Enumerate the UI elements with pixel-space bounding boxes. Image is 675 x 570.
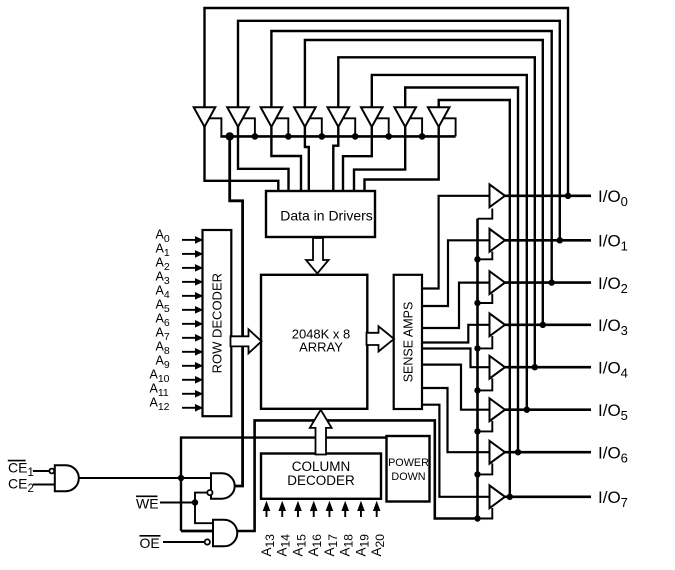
svg-text:ROW DECODER: ROW DECODER (210, 273, 225, 373)
svg-text:SENSE AMPS: SENSE AMPS (402, 302, 416, 383)
svg-text:DOWN: DOWN (391, 471, 425, 483)
svg-text:COLUMN: COLUMN (292, 459, 351, 474)
svg-text:ARRAY: ARRAY (299, 340, 343, 355)
svg-text:DECODER: DECODER (287, 473, 355, 488)
svg-text:WE: WE (136, 496, 159, 512)
svg-text:OE: OE (140, 535, 160, 551)
svg-text:POWER: POWER (388, 457, 429, 469)
svg-text:Data in Drivers: Data in Drivers (280, 208, 373, 224)
